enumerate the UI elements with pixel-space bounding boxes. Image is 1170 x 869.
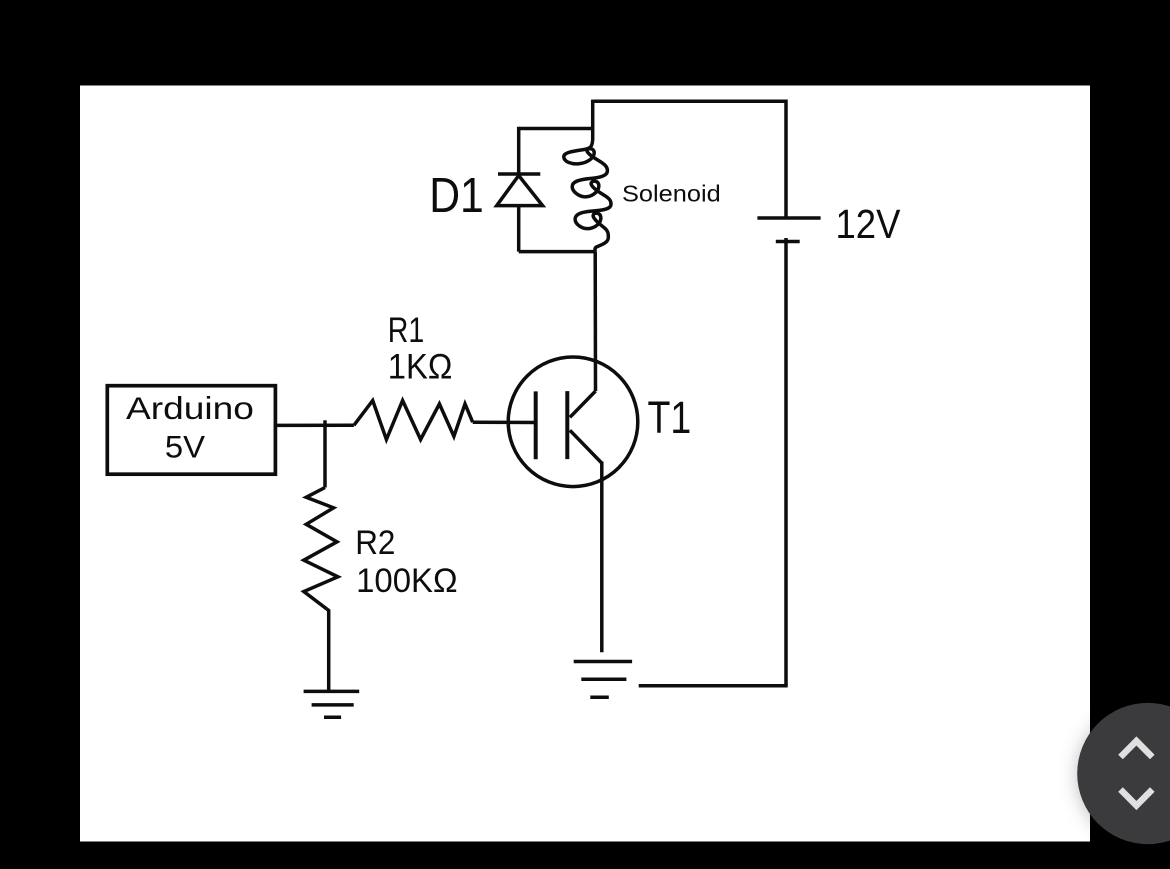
- Arduino box: [107, 386, 275, 475]
- ground GND1 bar 1: [304, 690, 360, 694]
- transistor T1 circle: [508, 357, 638, 487]
- wire: solenoid top stub: [591, 100, 595, 140]
- wire: junction down to R2: [323, 425, 327, 488]
- scroll button chevron up: [1121, 741, 1153, 757]
- resistor R1 zigzag: [354, 401, 473, 440]
- wire: R1 to transistor base: [473, 420, 536, 424]
- white schematic canvas: [80, 86, 1090, 842]
- transistor T1 base plate right: [565, 391, 569, 459]
- diode D1 triangle: [497, 176, 543, 206]
- inductor L1 solenoid coil: [564, 140, 611, 252]
- transistor T1 base plate left: [534, 391, 538, 459]
- ground GND2 bar 1: [574, 660, 632, 664]
- ground GND1 bar 2: [312, 703, 354, 707]
- svg-text:12V: 12V: [836, 201, 901, 247]
- wire: diode top horizontal: [519, 127, 593, 131]
- svg-text:5V: 5V: [165, 429, 205, 465]
- svg-text:D1: D1: [429, 168, 484, 223]
- transistor T1 collector diagonal: [570, 391, 596, 417]
- wire: diode bottom vertical: [517, 206, 521, 252]
- resistor R2 zigzag: [304, 488, 338, 610]
- ground GND2 bar 3: [590, 695, 609, 699]
- battery B1 positive long plate: [757, 216, 820, 220]
- svg-text:T1: T1: [648, 392, 692, 443]
- wire: battery top vertical: [784, 100, 788, 219]
- ground GND1 bar 3: [324, 716, 341, 720]
- scroll button chevron down: [1121, 790, 1153, 806]
- ground GND2 bar 2: [581, 677, 626, 681]
- wire: emitter vertical to ground: [600, 462, 604, 653]
- battery B1 negative short plate: [776, 240, 800, 244]
- wire: diode bottom horizontal: [519, 250, 596, 254]
- wire: diode top vertical: [517, 127, 521, 174]
- scroll button circle: [1077, 703, 1170, 844]
- wire: R2 to ground: [327, 609, 329, 691]
- diode D1 cathode bar: [498, 172, 540, 176]
- svg-text:1KΩ: 1KΩ: [388, 346, 453, 386]
- wire: battery bottom vertical: [784, 238, 788, 686]
- wire: Arduino output to junction: [275, 424, 354, 428]
- svg-text:100KΩ: 100KΩ: [356, 562, 458, 600]
- svg-text:R2: R2: [355, 524, 395, 562]
- transistor T1 emitter diagonal: [570, 430, 602, 463]
- node: R2 junction stub: [323, 420, 327, 425]
- svg-text:R1: R1: [388, 310, 425, 350]
- wire: top rail from solenoid top to battery +: [593, 100, 786, 104]
- svg-text:Solenoid: Solenoid: [622, 181, 721, 207]
- wire: bottom rail from battery to ground: [639, 684, 788, 688]
- svg-text:Arduino: Arduino: [126, 390, 254, 426]
- wire: solenoid bottom to collector node: [593, 252, 597, 392]
